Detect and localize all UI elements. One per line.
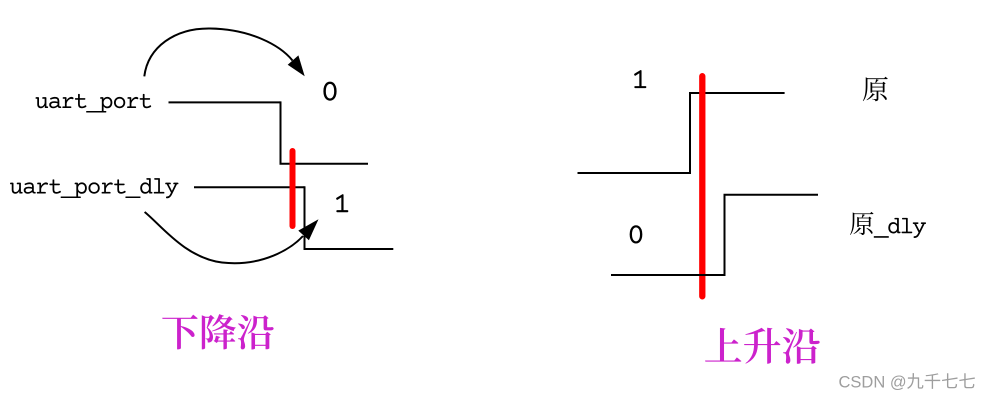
caption rising-edge char 升 — [744, 328, 780, 364]
caption falling-edge char 下 — [162, 315, 197, 350]
svg-text:CSDN @: CSDN @ — [839, 374, 907, 392]
watermark char 千 — [925, 373, 941, 389]
sampling marker red bar (right) — [699, 76, 705, 296]
value label 1 (right) — [634, 70, 646, 88]
label uart_port — [36, 94, 152, 113]
wire yuan low segment — [578, 172, 691, 174]
label yuan_dly char yuan — [850, 212, 874, 235]
arrow arc old-value to 1 — [145, 212, 303, 263]
rising edge of yuan_dly — [724, 195, 726, 276]
watermark char 七 — [942, 373, 958, 388]
falling edge of uart_port — [280, 101, 282, 163]
wire yuan_dly low segment — [611, 274, 725, 276]
caption rising-edge char 沿 — [783, 328, 820, 364]
value label 0 (right) — [630, 225, 643, 243]
wire yuan high segment — [689, 92, 785, 94]
caption falling-edge char 降 — [202, 314, 236, 349]
wire uart_port_dly low segment — [304, 248, 394, 250]
watermark char 七 — [959, 373, 975, 388]
arrowhead to 0 — [288, 55, 305, 76]
wire uart_port high segment — [169, 101, 281, 103]
falling edge of uart_port_dly — [304, 186, 306, 249]
value label 0 (left) — [323, 82, 336, 101]
label uart_port_dly — [10, 178, 178, 198]
sampling marker red bar (left) — [290, 151, 296, 226]
arrowhead to 1 — [298, 219, 318, 240]
wire yuan_dly high segment — [724, 194, 819, 196]
value label 1 (left) — [336, 194, 348, 212]
caption falling-edge char 沿 — [238, 315, 274, 350]
caption rising-edge char 上 — [705, 328, 741, 362]
wire uart_port_dly high segment — [194, 186, 305, 188]
wire uart_port low segment — [280, 163, 369, 165]
arrow arc old-value to 0 — [144, 28, 292, 76]
watermark char 九 — [907, 373, 923, 389]
label yuan (original signal) — [863, 77, 888, 102]
label yuan_dly suffix _dly — [874, 218, 926, 238]
rising edge of yuan — [689, 93, 691, 174]
